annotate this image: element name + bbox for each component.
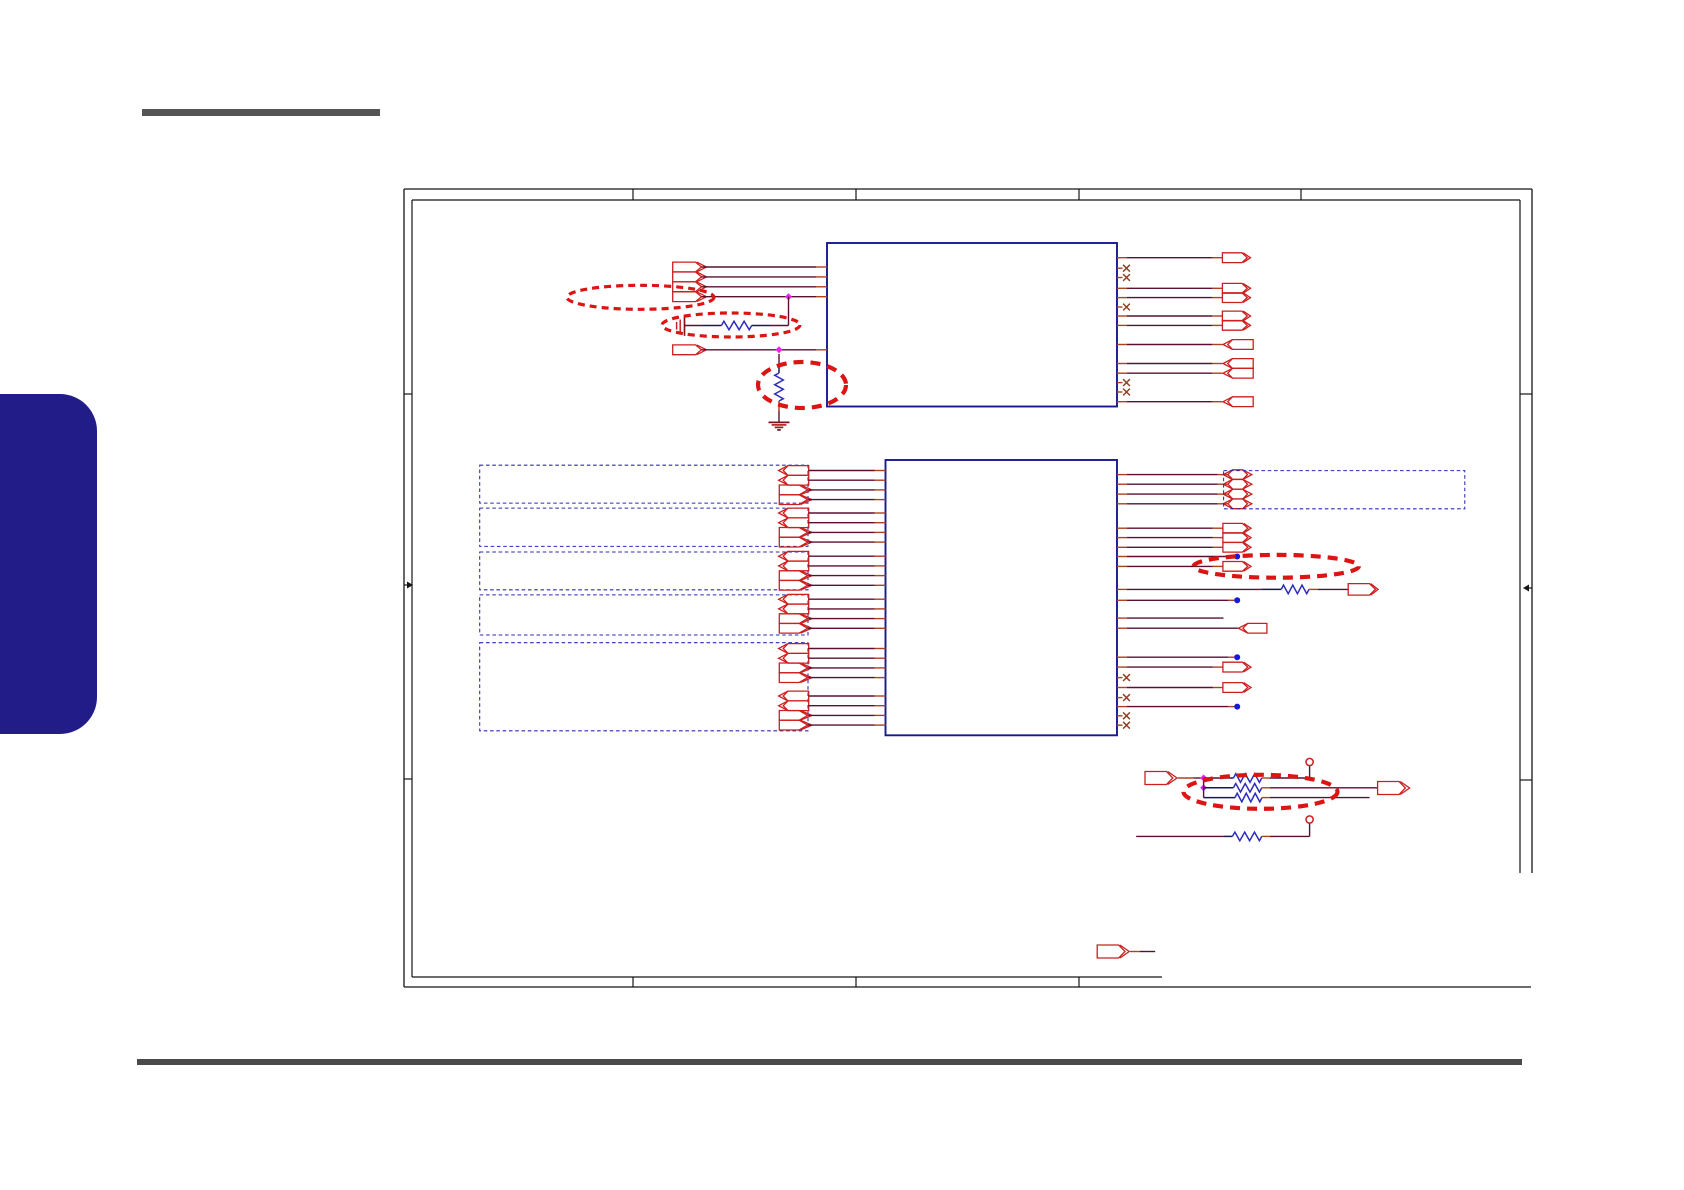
off-page connector U2 right row 15	[1223, 662, 1248, 672]
wire up to test pin 1	[1309, 766, 1311, 779]
wire J1 vertical	[788, 297, 790, 326]
off-page connector stack left of U1	[673, 262, 707, 302]
bidirectional connector stack U2 right	[1223, 470, 1252, 509]
resistor R7 lower net	[1136, 832, 1309, 841]
wire U2 right row 13	[1117, 627, 1238, 629]
off-page connector output pair U2 left group 2	[779, 528, 812, 548]
side navy tab	[0, 394, 97, 733]
off-page connector row 10 far right	[1348, 584, 1375, 596]
node junction J4	[1200, 784, 1207, 791]
no-connect U2 right row 18	[1117, 694, 1130, 701]
wires U2 left group 6	[809, 696, 886, 725]
wire U1 left pin 1	[702, 266, 828, 268]
test pin circle 1	[1306, 758, 1313, 765]
off-page connector input pair U2 left group 6	[779, 691, 809, 711]
off-page connector input pair U2 left group 4	[779, 594, 809, 613]
off-page connector input pair U2 left group 1	[779, 466, 809, 486]
wire U2 right row 12 (open)	[1117, 617, 1224, 619]
off-page connector output pair U2 left group 3	[779, 571, 812, 590]
wires U2 left group 1	[809, 471, 886, 500]
resistor R1	[685, 321, 789, 330]
wire to junction	[1178, 777, 1204, 779]
bus net dashed box 2	[480, 508, 808, 546]
off-page connector U2 right row 9 (circled)	[1223, 562, 1248, 572]
wires U2 left group 3	[809, 556, 886, 585]
resistor R5 middle row	[1204, 784, 1378, 793]
wire U2 right row 15	[1117, 666, 1223, 668]
wire U2 right row 9	[1117, 565, 1223, 567]
off-page connector bottom of sheet	[1097, 945, 1125, 958]
off-page connector pair U1 right rows 7-8	[1222, 311, 1250, 330]
off-page connector output pair U2 left group 6	[779, 711, 812, 731]
header bar	[142, 109, 380, 117]
no-connect U2 right row 16	[1117, 674, 1130, 681]
off-page connector input pair U2 left group 5	[779, 644, 809, 664]
off-page connector output pair U2 left group 5	[779, 663, 812, 683]
bus net dashed box 1	[480, 465, 808, 503]
off-page connector single left of U1	[673, 345, 702, 355]
test pin circle 2	[1306, 816, 1313, 823]
schematic sheet frame	[404, 189, 1532, 987]
U2 right bus wires rows 1-4	[1117, 475, 1228, 504]
bus net dashed box 5	[480, 643, 808, 731]
wire U1 left pin 2	[702, 276, 828, 278]
footer bar	[137, 1059, 1522, 1065]
off-page connector input pair U1 right rows 10-11	[1223, 359, 1253, 379]
power symbol (rotated ground)	[677, 316, 685, 336]
no-connect marks U1 right	[1123, 265, 1130, 396]
off-page connector stack U2 right rows 5-7	[1223, 523, 1251, 552]
resistor R3 net row 10	[1117, 585, 1348, 594]
wire U1 left pin 3	[702, 286, 828, 288]
ground	[769, 422, 790, 430]
wire U1 left pin 5	[702, 349, 828, 351]
no-connect U2 right row 20	[1117, 712, 1130, 719]
highlight ellipse 2	[662, 313, 800, 337]
frame center arrow right	[1523, 585, 1532, 592]
wire U1 left pin 4	[702, 296, 828, 298]
node junction J1	[785, 293, 792, 300]
off-page connector input U2 right row 13	[1243, 623, 1267, 633]
wire U2 right row 14 with junction dot	[1117, 654, 1240, 660]
resistor R4 top row	[1204, 774, 1309, 783]
off-page connector output pair U2 left group 4	[779, 614, 812, 633]
highlight ellipse 4	[1194, 555, 1359, 578]
U1 right pin wires	[1117, 258, 1222, 402]
bus net dashed box right	[1224, 471, 1465, 509]
off-page connector U2 right row 17	[1223, 683, 1248, 693]
off-page connector bottom-right	[1378, 782, 1406, 795]
bus net dashed box 4	[480, 595, 808, 635]
frame center arrow left	[404, 582, 413, 589]
no-connect U2 right row 21	[1117, 722, 1130, 729]
bus net dashed box 3	[480, 552, 808, 590]
off-page connector pair U1 right rows 4-5	[1222, 283, 1250, 302]
off-page connector output pair U2 left group 1	[779, 485, 812, 505]
wire U2 right row 17	[1117, 687, 1223, 689]
wires U2 left group 4	[809, 599, 886, 628]
node junction J2	[776, 346, 783, 353]
U2 right wires rows 5-7	[1117, 528, 1223, 547]
wire U2 right row 19 with junction dot	[1117, 704, 1240, 710]
wires U2 left group 2	[809, 513, 886, 542]
highlight ellipse 3	[758, 362, 846, 408]
resistor R6 bottom row	[1204, 793, 1370, 802]
wire U2 right row 8 with junction dot	[1117, 554, 1240, 560]
off-page connector input U1 right row 9	[1228, 340, 1254, 350]
wire up to test pin 2	[1309, 823, 1311, 836]
chip U2	[886, 460, 1118, 735]
off-page connector input pair U2 left group 3	[779, 551, 809, 570]
off-page connector input pair U2 left group 2	[779, 508, 809, 527]
highlight ellipse 1	[567, 285, 714, 309]
wire J3-J4	[1203, 778, 1205, 798]
wire U2 right row 11 with junction dot	[1117, 597, 1240, 603]
wire from bottom connector	[1130, 951, 1155, 953]
highlight ellipse 5	[1184, 775, 1338, 809]
off-page connector bottom-left of resistor network	[1145, 772, 1173, 785]
node junction J3	[1200, 775, 1207, 782]
wires U2 left group 5	[809, 649, 886, 678]
chip U1	[827, 243, 1117, 407]
off-page connector U1 right row1	[1222, 253, 1247, 263]
resistor R2 to ground	[775, 354, 784, 422]
off-page connector input U1 right row 14	[1228, 397, 1254, 407]
